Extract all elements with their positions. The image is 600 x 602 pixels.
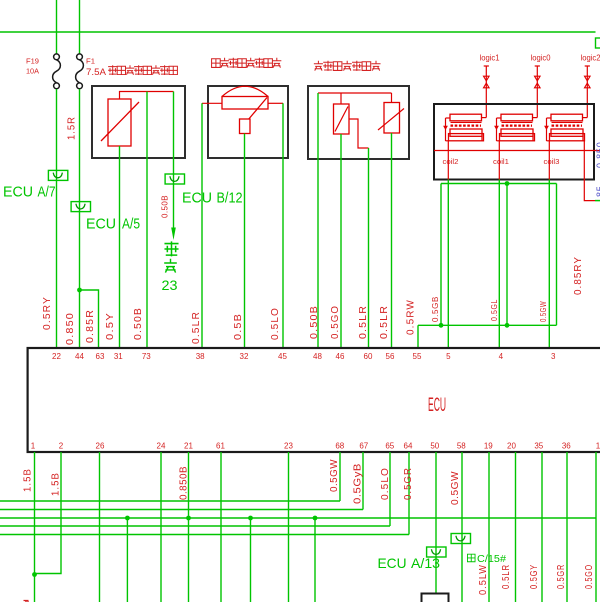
wire bus3 branch d: [314, 518, 316, 602]
svg-text:50: 50: [430, 442, 439, 451]
wire F1 to ECU pin 44: [79, 89, 81, 348]
caption throttle position sensor chinese: [212, 58, 282, 68]
wire bus3 branch a: [126, 518, 128, 602]
component box absolute pressure sensor: [308, 86, 409, 159]
svg-text:0.5GyB: 0.5GyB: [353, 463, 364, 504]
svg-text:0.50B: 0.50B: [309, 305, 320, 339]
svg-text:44: 44: [75, 352, 84, 361]
wire throttle to ECU pin 45: [282, 103, 284, 348]
svg-text:0.5LW: 0.5LW: [478, 564, 489, 595]
wire ECU pin 35: [541, 452, 543, 602]
thermistor diagonal: [101, 102, 139, 141]
svg-text:67: 67: [359, 442, 368, 451]
potentiometer left lead: [202, 102, 222, 104]
svg-text:logic1: logic1: [480, 54, 501, 63]
thermistor body: [108, 99, 131, 146]
wire ground rail to ECU pin 55: [417, 325, 419, 348]
connector ECU A/5: [71, 202, 90, 212]
svg-text:23: 23: [162, 277, 178, 293]
svg-text:56: 56: [386, 352, 395, 361]
svg-text:20: 20: [507, 442, 516, 451]
svg-text:35: 35: [534, 442, 543, 451]
node junction bus3 c: [248, 516, 253, 521]
off-page connector logic0: [535, 66, 541, 118]
pressure sensor top bus: [318, 92, 392, 94]
svg-text:A/7: A/7: [38, 184, 56, 201]
svg-text:1.5B: 1.5B: [23, 468, 34, 492]
wire HV output to page edge: [595, 200, 600, 202]
svg-text:46: 46: [336, 352, 345, 361]
svg-text:coil2: coil2: [443, 157, 459, 166]
wire wiper to ECU pin 32: [244, 134, 246, 349]
svg-text:36: 36: [562, 442, 571, 451]
svg-text:0.850: 0.850: [595, 141, 600, 168]
wire pressure to ECU pin 48: [317, 93, 319, 348]
node junction pin1-pin2: [32, 572, 37, 577]
wire battery feed to fuse F1: [79, 0, 81, 54]
svg-text:ECU: ECU: [86, 216, 116, 233]
potentiometer right lead: [268, 102, 283, 104]
svg-text:ECU: ECU: [182, 190, 212, 207]
svg-text:64: 64: [404, 442, 413, 451]
thermistor top lead: [120, 92, 174, 100]
svg-text:0.5GB: 0.5GB: [431, 296, 440, 322]
svg-text:0.5RY: 0.5RY: [42, 296, 53, 330]
node junction ground rail mid: [505, 323, 510, 328]
svg-text:1.5B: 1.5B: [51, 472, 62, 496]
svg-text:0.5GW: 0.5GW: [450, 471, 461, 505]
svg-text:0.5GO: 0.5GO: [330, 305, 341, 339]
svg-text:31: 31: [114, 352, 123, 361]
wire coil1 bottom lead: [498, 141, 500, 180]
wire sensor to ECU pin 73: [146, 92, 148, 349]
node junction bus3 a: [125, 516, 130, 521]
resistor R-right body: [384, 103, 400, 134]
svg-text:ECU: ECU: [3, 184, 33, 201]
wire ECU pin 26: [99, 452, 101, 602]
wire battery feed to fuse F19: [56, 0, 58, 54]
svg-text:ECU: ECU: [378, 555, 407, 571]
resistor R-left top lead: [340, 93, 342, 104]
potentiometer body: [222, 97, 268, 110]
svg-text:5: 5: [446, 352, 451, 361]
connector ECU B/12: [165, 174, 184, 184]
caption coolant temp sensor chinese: [108, 65, 177, 75]
wire ECU pin 65 to bus4: [389, 452, 391, 526]
bus line 4: [0, 525, 390, 527]
wire pressure to ECU pin 46: [340, 134, 342, 348]
svg-text:3: 3: [551, 352, 556, 361]
svg-text:0.50B: 0.50B: [161, 195, 170, 218]
svg-text:0.5RW: 0.5RW: [406, 299, 417, 335]
wire bus3 branch c: [250, 518, 252, 602]
svg-text:0.5GW: 0.5GW: [539, 301, 548, 322]
arrow to instrument 23: [171, 228, 176, 241]
svg-text:0.5GW: 0.5GW: [329, 459, 340, 492]
svg-text:58: 58: [457, 442, 466, 451]
svg-text:68: 68: [335, 442, 344, 451]
svg-text:logic2: logic2: [581, 54, 600, 63]
svg-text:0.85R: 0.85R: [85, 309, 96, 343]
node junction pin44 wire: [77, 288, 82, 293]
wire ECU pin 58: [461, 452, 463, 602]
wire ECU pin 2 ground: [35, 452, 62, 574]
connector ECU A/7: [48, 170, 67, 180]
svg-text:ECU: ECU: [428, 396, 446, 417]
svg-text:10A: 10A: [26, 67, 39, 76]
svg-text:F19: F19: [26, 57, 39, 66]
wire coil1 to ECU pin 4: [498, 180, 500, 349]
svg-text:63: 63: [96, 352, 105, 361]
ignition coil coil3: [544, 114, 587, 141]
bus line 1: [0, 500, 340, 502]
svg-text:4: 4: [499, 352, 504, 361]
svg-text:73: 73: [142, 352, 151, 361]
svg-text:0.5GL: 0.5GL: [490, 299, 499, 321]
wire thermistor to ECU pin 31: [119, 146, 121, 348]
svg-text:2: 2: [59, 442, 64, 451]
node junction coil rail upper: [505, 181, 510, 186]
svg-text:1: 1: [596, 442, 600, 451]
wire coil2 bottom lead: [447, 141, 449, 180]
svg-text:24: 24: [157, 442, 166, 451]
fuse F1: [76, 54, 84, 89]
resistor R-left body: [334, 104, 350, 134]
svg-text:0.850B: 0.850B: [179, 466, 190, 500]
svg-text:61: 61: [216, 442, 225, 451]
svg-text:0.5GO: 0.5GO: [584, 564, 595, 589]
wire branch to pin 63: [80, 290, 99, 348]
potentiometer arc: [222, 86, 268, 96]
wire pressure to ECU pin 56: [391, 133, 393, 348]
svg-text:38: 38: [196, 352, 205, 361]
wire ground drop left: [440, 184, 442, 326]
fuse F19: [53, 54, 61, 89]
svg-text:F1: F1: [86, 57, 95, 66]
svg-text:22: 22: [52, 352, 61, 361]
wire ECU pin 21: [188, 452, 190, 602]
svg-text:0.5LO: 0.5LO: [380, 467, 391, 500]
wire ECU pin 23: [288, 452, 290, 602]
svg-text:logic0: logic0: [531, 54, 552, 63]
wire jog to pin 60: [349, 119, 369, 148]
svg-text:85: 85: [595, 185, 600, 197]
label instrument C/15#: [467, 554, 475, 562]
svg-text:65: 65: [385, 442, 394, 451]
wire ground drop mid: [506, 184, 508, 326]
component box coolant temperature sensor: [92, 86, 185, 158]
svg-text:0.5LR: 0.5LR: [358, 305, 369, 339]
svg-text:coil3: coil3: [544, 157, 560, 166]
svg-text:21: 21: [184, 442, 193, 451]
wire ECU pin 61: [220, 452, 222, 602]
wire throttle to ECU pin 38: [201, 103, 203, 348]
wire ECU pin right edge: [595, 452, 597, 602]
resistor R-right top lead: [391, 93, 393, 103]
wire ECU pin 1 ground: [34, 452, 36, 602]
svg-text:60: 60: [364, 352, 373, 361]
component box bottom partial: [422, 594, 449, 602]
wire sensor to instrument B/12: [173, 92, 175, 229]
svg-text:48: 48: [313, 352, 322, 361]
svg-text:A/13: A/13: [411, 555, 440, 571]
connector ECU A/13: [427, 547, 446, 557]
node junction bus3 b: [186, 516, 191, 521]
svg-text:0.5LR: 0.5LR: [501, 564, 512, 589]
wire ECU pin 67 to bus2: [362, 452, 364, 510]
wire coil common rail: [434, 150, 600, 152]
wire coil ground rail lower: [418, 324, 557, 326]
svg-text:0.5GR: 0.5GR: [556, 564, 567, 589]
node junction ground rail left: [439, 323, 444, 328]
off-page connector logic1: [484, 66, 490, 118]
bus line 3: [0, 517, 596, 519]
wire coil2 to ECU pin 5: [447, 180, 449, 349]
component box ignition coil module: [434, 104, 594, 180]
wire F19 to ECU pin 22: [56, 89, 58, 348]
svg-text:0.850: 0.850: [65, 312, 76, 345]
wire ECU pin 64 to bus5: [408, 452, 410, 535]
wire coil3 bottom lead: [548, 141, 550, 180]
wiper diagonal: [249, 98, 267, 120]
node junction bus3 d: [313, 516, 318, 521]
connector stub top right edge: [596, 38, 600, 48]
svg-text:0.5B: 0.5B: [233, 313, 244, 340]
label fragment bottom left corner: [24, 601, 30, 602]
wire ground drop right: [556, 184, 558, 326]
wire ECU pin 50: [435, 452, 437, 594]
wire ECU pin 24: [160, 452, 162, 602]
bus line 2: [0, 509, 363, 511]
bus line 5: [0, 534, 409, 536]
label instrument yi: [164, 241, 178, 256]
svg-text:0.5GR: 0.5GR: [403, 467, 414, 500]
svg-text:0.5GY: 0.5GY: [529, 564, 540, 589]
svg-text:26: 26: [96, 442, 105, 451]
svg-text:1.5R: 1.5R: [67, 116, 78, 140]
svg-text:0.5LR: 0.5LR: [379, 305, 390, 339]
svg-text:B/12: B/12: [217, 190, 243, 207]
ECU main box: [28, 348, 600, 452]
wire top horizontal supply rail: [0, 31, 596, 33]
resistor R-left diagonal: [335, 107, 348, 132]
svg-text:0.5Y: 0.5Y: [105, 312, 116, 340]
svg-text:0.50B: 0.50B: [133, 307, 144, 340]
wire coil3 HV output: [584, 141, 595, 201]
svg-text:23: 23: [284, 442, 293, 451]
svg-text:55: 55: [413, 352, 422, 361]
wire ECU pin 36: [566, 452, 568, 602]
wire ECU pin 20: [515, 452, 517, 602]
off-page connector logic2: [585, 66, 591, 118]
svg-text:coil1: coil1: [493, 157, 509, 166]
svg-text:C/15#: C/15#: [477, 554, 506, 565]
wire ECU pin 68 to bus1: [339, 452, 341, 501]
wire coil ground rail upper: [441, 183, 557, 185]
ignition coil coil1: [494, 114, 537, 141]
svg-text:45: 45: [278, 352, 287, 361]
svg-text:0.5LR: 0.5LR: [191, 311, 202, 344]
svg-text:A/5: A/5: [122, 216, 140, 233]
svg-text:0.85RY: 0.85RY: [573, 256, 584, 295]
caption absolute pressure sensor chinese: [314, 61, 381, 71]
svg-text:1: 1: [31, 442, 36, 451]
wire ECU pin 19: [488, 452, 490, 602]
svg-text:7.5A: 7.5A: [86, 67, 107, 78]
connector instrument C/15#: [451, 534, 470, 544]
svg-text:19: 19: [484, 442, 493, 451]
wire pressure to ECU pin 60: [368, 148, 370, 348]
svg-text:0.5LO: 0.5LO: [270, 307, 281, 340]
resistor R-right diagonal: [378, 109, 404, 131]
wire coil3 to ECU pin 3: [548, 180, 550, 349]
wiper contact square: [240, 119, 251, 134]
ignition coil coil2: [443, 114, 486, 141]
label instrument biao: [164, 259, 177, 273]
component box throttle position sensor: [208, 86, 288, 158]
svg-text:32: 32: [240, 352, 249, 361]
